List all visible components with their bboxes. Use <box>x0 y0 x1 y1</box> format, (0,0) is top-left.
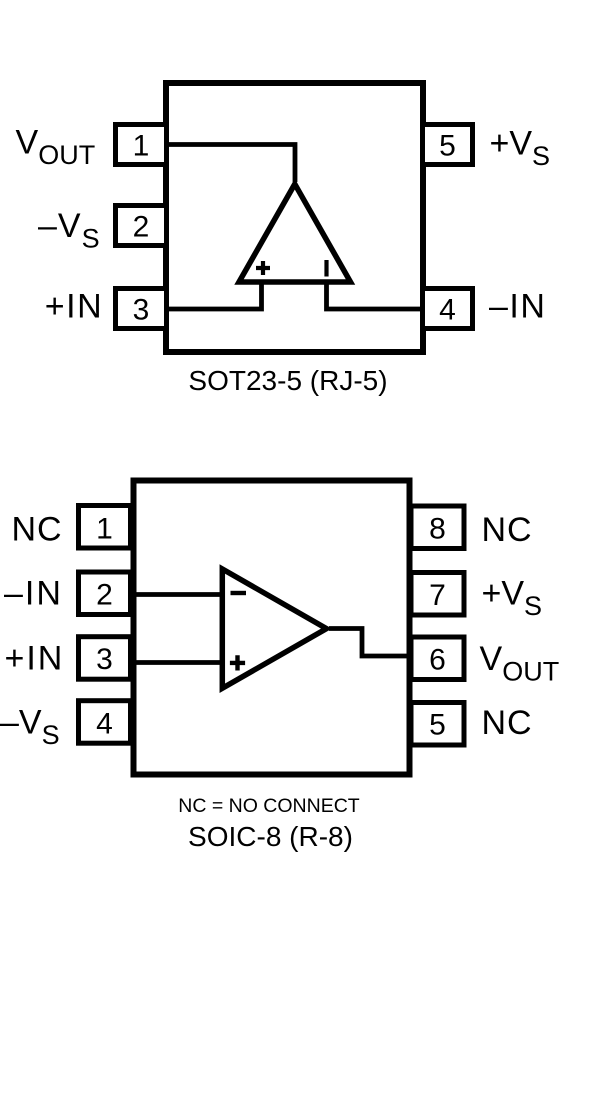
svg-text:+IN: +IN <box>5 640 65 678</box>
svg-text:8: 8 <box>429 513 446 546</box>
pin 2 box (SOIC-8) <box>79 572 131 615</box>
svg-text:4: 4 <box>96 708 113 741</box>
svg-text:NC = NO CONNECT: NC = NO CONNECT <box>178 795 360 817</box>
svg-text:1: 1 <box>96 513 113 546</box>
pin 3 box (SOT23-5) <box>116 289 167 329</box>
svg-text:+IN: +IN <box>45 288 103 326</box>
pin 8 box (SOIC-8) <box>411 506 464 549</box>
svg-text:7: 7 <box>429 579 446 612</box>
pin 7 box (SOIC-8) <box>411 573 464 616</box>
pin 4 box (SOIC-8) <box>79 701 131 744</box>
wire pin3 +IN to op-amp noninverting input (SOIC-8) <box>133 660 222 665</box>
svg-text:3: 3 <box>96 643 113 676</box>
svg-text:SOT23-5 (RJ-5): SOT23-5 (RJ-5) <box>188 365 387 396</box>
op-amp A2 triangle (SOIC-8) <box>222 569 326 688</box>
svg-text:–IN: –IN <box>489 288 546 326</box>
wire pin1 VOUT to op-amp output apex <box>166 145 295 183</box>
plus marker noninverting input (SOIC-8) <box>230 655 245 670</box>
svg-text:2: 2 <box>133 211 150 244</box>
IC body SOIC-8 package outline <box>134 481 410 775</box>
svg-text:NC: NC <box>482 704 533 742</box>
pin 1 box (SOT23-5) <box>116 125 167 165</box>
minus marker inverting input (SOIC-8) <box>231 591 247 595</box>
svg-text:4: 4 <box>439 294 456 327</box>
wire op-amp output to pin6 VOUT (SOIC-8) <box>329 629 410 657</box>
wire pin4 -IN to op-amp inverting input <box>327 283 424 309</box>
pin 6 box (SOIC-8) <box>411 637 464 680</box>
plus marker noninverting input (SOT23-5) <box>256 261 270 275</box>
minus marker inverting input (SOT23-5, vertical bar) <box>324 260 328 277</box>
wire pin2 -IN to op-amp inverting input (SOIC-8) <box>133 592 222 597</box>
svg-text:2: 2 <box>96 579 113 612</box>
svg-text:6: 6 <box>429 644 446 677</box>
wire pin3 +IN to op-amp noninverting input <box>166 283 262 309</box>
pin 1 box (SOIC-8) <box>79 506 131 549</box>
pin 4 box (SOT23-5) <box>423 289 473 329</box>
pin 2 box (SOT23-5) <box>116 206 167 246</box>
svg-text:5: 5 <box>429 709 446 742</box>
svg-text:SOIC-8 (R-8): SOIC-8 (R-8) <box>188 821 353 852</box>
pin 5 box (SOT23-5) <box>423 125 473 165</box>
svg-text:5: 5 <box>439 130 456 163</box>
pin 3 box (SOIC-8) <box>79 637 131 680</box>
pin 5 box (SOIC-8) <box>411 703 464 746</box>
svg-text:1: 1 <box>133 130 150 163</box>
IC body SOT23-5 package outline <box>166 83 423 352</box>
svg-text:–IN: –IN <box>4 575 63 613</box>
svg-text:3: 3 <box>133 294 150 327</box>
svg-text:NC: NC <box>482 511 533 549</box>
op-amp A1 triangle (SOT23-5) <box>239 184 351 282</box>
svg-text:NC: NC <box>12 511 63 549</box>
